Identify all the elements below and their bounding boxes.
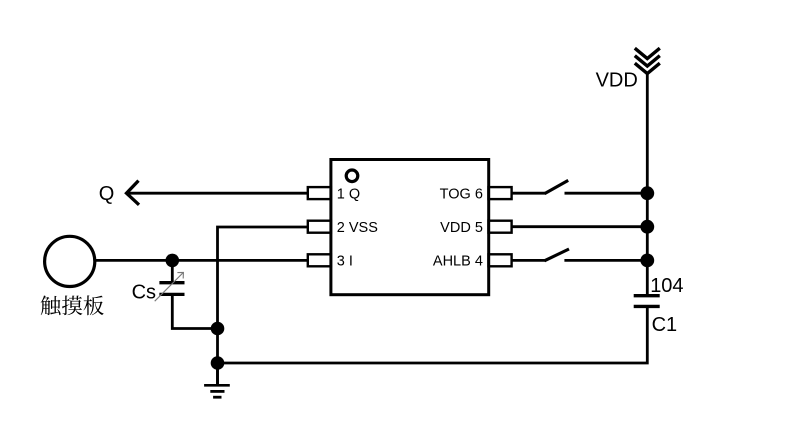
svg-text:Cs: Cs <box>132 281 156 303</box>
svg-text:3 I: 3 I <box>337 254 353 270</box>
svg-text:1 Q: 1 Q <box>337 186 360 202</box>
svg-text:VDD: VDD <box>596 70 638 92</box>
svg-text:104: 104 <box>650 275 683 297</box>
svg-text:Q: Q <box>99 183 115 205</box>
svg-text:VDD 5: VDD 5 <box>440 220 483 236</box>
svg-text:2 VSS: 2 VSS <box>337 220 378 236</box>
svg-text:C1: C1 <box>652 314 678 336</box>
svg-text:TOG 6: TOG 6 <box>440 186 483 202</box>
svg-text:AHLB 4: AHLB 4 <box>433 254 483 270</box>
